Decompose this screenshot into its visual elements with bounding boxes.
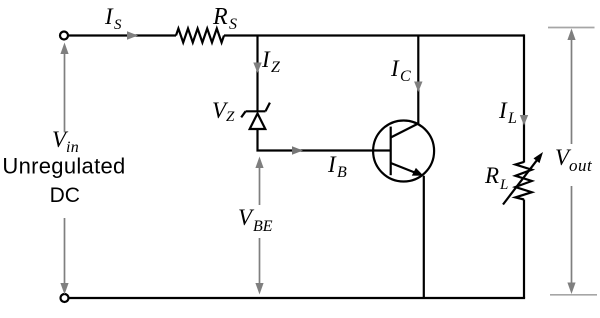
svg-text:R: R	[484, 163, 499, 188]
svg-text:Z: Z	[271, 59, 281, 76]
Vin dimension arrow lower	[64, 218, 66, 285]
svg-text:I: I	[390, 56, 400, 81]
arrow IS	[127, 31, 138, 39]
transistor base bar	[390, 127, 392, 176]
wire bottom rail	[69, 297, 525, 299]
svg-text:BE: BE	[253, 218, 273, 235]
Vout dimension bottom bar	[550, 294, 597, 296]
Vout dimension top bar	[548, 27, 595, 29]
wire zener branch top	[256, 36, 258, 112]
resistor RS	[176, 29, 224, 43]
wire collector	[417, 36, 419, 125]
svg-text:C: C	[400, 68, 411, 85]
svg-text:Z: Z	[226, 109, 235, 125]
wire top rail	[69, 34, 177, 36]
RL wiper arrow	[503, 159, 538, 204]
arrow IB	[292, 146, 303, 154]
terminal bottom-left	[61, 294, 69, 302]
terminal top-left	[60, 32, 68, 40]
svg-text:S: S	[114, 17, 122, 33]
svg-text:I: I	[261, 47, 271, 72]
svg-text:out: out	[569, 156, 593, 175]
wire right rail lower	[523, 200, 525, 299]
transistor emitter diagonal with arrow	[391, 163, 416, 173]
Vin dimension arrow upper	[64, 52, 66, 131]
zener diode VZ	[241, 103, 270, 129]
svg-text:L: L	[499, 177, 508, 193]
svg-text:I: I	[104, 4, 114, 29]
load resistor RL	[515, 162, 531, 200]
svg-text:B: B	[337, 164, 347, 181]
wire emitter	[423, 176, 425, 298]
svg-text:R: R	[212, 4, 228, 30]
transistor Q1 circle	[373, 121, 434, 182]
svg-text:S: S	[229, 16, 237, 33]
svg-text:DC: DC	[50, 184, 80, 207]
arrow IZ	[253, 63, 261, 74]
wire top rail right of RS	[224, 34, 524, 36]
svg-text:I: I	[498, 98, 508, 123]
Vout dimension arrow	[567, 29, 575, 41]
wire right rail upper	[523, 34, 525, 162]
wire zener to base	[258, 129, 391, 151]
transistor collector diagonal	[391, 124, 419, 138]
svg-text:Unregulated: Unregulated	[2, 154, 125, 179]
svg-text:L: L	[507, 110, 517, 127]
VBE dimension arrow	[255, 157, 263, 169]
arrow IL	[520, 115, 528, 126]
arrow IC	[414, 82, 422, 93]
svg-text:I: I	[327, 152, 337, 177]
